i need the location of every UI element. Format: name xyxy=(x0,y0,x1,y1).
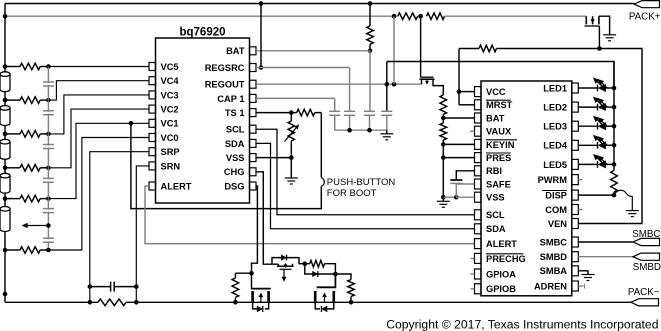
svg-text:LED2: LED2 xyxy=(543,103,567,113)
svg-text:LED4: LED4 xyxy=(543,141,568,151)
svg-text:SMBA: SMBA xyxy=(540,266,568,276)
svg-text:VC2: VC2 xyxy=(161,105,179,115)
svg-text:VCC: VCC xyxy=(486,87,506,97)
svg-text:ADREN: ADREN xyxy=(534,281,567,291)
svg-text:SMBC: SMBC xyxy=(632,229,660,240)
svg-text:REGSRC: REGSRC xyxy=(205,63,245,73)
svg-text:GPIOA: GPIOA xyxy=(486,269,516,279)
svg-text:SDA: SDA xyxy=(486,224,506,234)
svg-text:SAFE: SAFE xyxy=(486,179,511,189)
svg-text:SMBD: SMBD xyxy=(540,252,568,262)
svg-text:DSG: DSG xyxy=(224,181,244,191)
svg-text:TS 1: TS 1 xyxy=(225,108,245,118)
svg-text:VC0: VC0 xyxy=(161,133,179,143)
svg-text:ALERT: ALERT xyxy=(161,181,192,191)
svg-text:LED5: LED5 xyxy=(543,160,567,170)
svg-text:PUSH-BUTTON: PUSH-BUTTON xyxy=(327,177,396,188)
svg-text:PRECHG: PRECHG xyxy=(486,254,526,264)
svg-text:VAUX: VAUX xyxy=(486,127,512,137)
svg-text:PACK+: PACK+ xyxy=(629,12,661,23)
svg-text:bq76920: bq76920 xyxy=(179,27,225,39)
svg-text:BAT: BAT xyxy=(226,46,245,56)
svg-text:VC4: VC4 xyxy=(161,76,180,86)
svg-text:DISP: DISP xyxy=(545,191,567,201)
svg-text:VC3: VC3 xyxy=(161,90,179,100)
svg-text:VSS: VSS xyxy=(226,153,245,163)
svg-text:SMBC: SMBC xyxy=(540,237,568,247)
svg-text:ALERT: ALERT xyxy=(486,239,517,249)
svg-text:MRST: MRST xyxy=(486,100,513,110)
svg-text:RBI: RBI xyxy=(486,166,502,176)
svg-text:SRN: SRN xyxy=(161,161,181,171)
svg-text:FOR BOOT: FOR BOOT xyxy=(327,188,377,199)
svg-text:PWRM: PWRM xyxy=(538,175,568,185)
svg-text:CHG: CHG xyxy=(224,167,245,177)
svg-text:VEN: VEN xyxy=(548,219,567,229)
svg-text:KEYIN: KEYIN xyxy=(486,140,515,150)
svg-text:REGOUT: REGOUT xyxy=(205,80,245,90)
svg-text:GPIOB: GPIOB xyxy=(486,284,516,294)
svg-text:SMBD: SMBD xyxy=(633,262,661,273)
svg-text:COM: COM xyxy=(545,205,567,215)
svg-text:CAP 1: CAP 1 xyxy=(217,94,244,104)
svg-text:SRP: SRP xyxy=(161,147,180,157)
svg-text:BAT: BAT xyxy=(486,113,505,123)
svg-text:LED1: LED1 xyxy=(543,83,567,93)
svg-text:VC5: VC5 xyxy=(161,62,179,72)
svg-text:VSS: VSS xyxy=(486,193,505,203)
svg-text:PRES: PRES xyxy=(486,153,511,163)
svg-text:Copyright © 2017, Texas Instru: Copyright © 2017, Texas Instruments Inco… xyxy=(386,318,658,331)
svg-text:PACK−: PACK− xyxy=(628,287,660,298)
svg-text:VC1: VC1 xyxy=(161,119,179,129)
svg-text:SCL: SCL xyxy=(486,210,505,220)
svg-text:SCL: SCL xyxy=(226,125,245,135)
svg-text:SDA: SDA xyxy=(225,139,245,149)
svg-text:LED3: LED3 xyxy=(543,122,567,132)
